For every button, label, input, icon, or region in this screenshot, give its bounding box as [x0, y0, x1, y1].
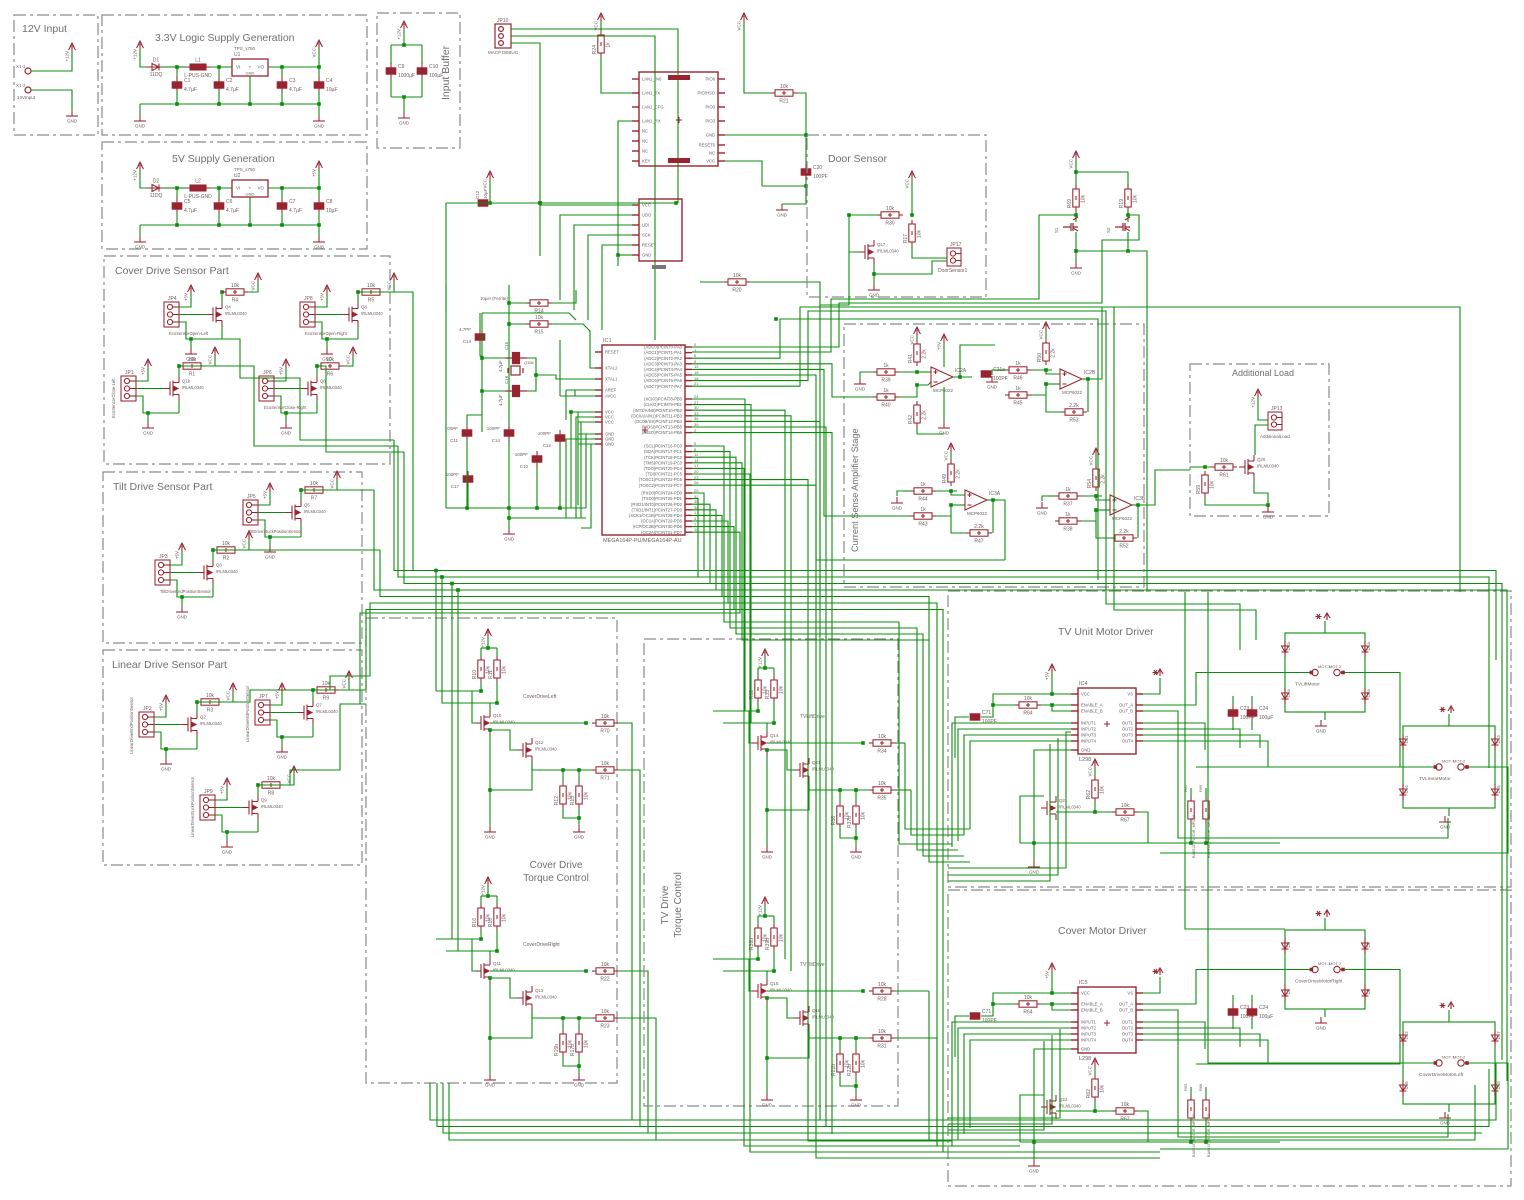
svg-text:+12V: +12V	[758, 657, 763, 668]
svg-text:D2: D2	[153, 179, 160, 185]
junction	[507, 322, 511, 326]
svg-text:R33: R33	[765, 690, 771, 699]
svg-text:GND: GND	[777, 213, 788, 218]
resistor R15b	[560, 1030, 566, 1056]
wire gnd stub	[1324, 712, 1326, 720]
LAN module center mark	[676, 117, 682, 123]
junction	[1204, 841, 1208, 845]
resistor R52	[1111, 535, 1137, 541]
wire	[215, 815, 258, 832]
svg-text:(OC0B/SS)PCINT12-PB4: (OC0B/SS)PCINT12-PB4	[635, 419, 683, 424]
wire	[177, 66, 185, 68]
svg-text:IRLML0340: IRLML0340	[770, 988, 792, 993]
ground	[1262, 506, 1274, 512]
svg-text:MCP6022: MCP6022	[1062, 390, 1083, 395]
junction	[1074, 213, 1078, 217]
wire	[749, 959, 758, 991]
power +12V pair	[1440, 706, 1455, 713]
inductor L2	[185, 185, 211, 191]
wire	[1267, 505, 1269, 508]
wire	[943, 414, 945, 422]
power VCC	[948, 443, 955, 452]
svg-text:C6: C6	[226, 199, 233, 205]
svg-text:R16: R16	[472, 918, 478, 927]
junction	[1032, 841, 1036, 845]
junction	[480, 356, 484, 360]
wire gate in	[436, 690, 481, 692]
junction	[507, 301, 511, 305]
wire	[268, 187, 319, 189]
wire	[1094, 802, 1096, 812]
wire	[601, 57, 632, 93]
junction	[488, 201, 492, 205]
svg-text:20: 20	[694, 469, 699, 474]
wire bottom rail	[140, 224, 319, 226]
junction	[486, 646, 490, 650]
wire pd5 bus	[366, 521, 728, 676]
svg-text:R7: R7	[311, 496, 318, 502]
svg-text:OUT3: OUT3	[1122, 1032, 1134, 1037]
svg-text:JP3: JP3	[159, 554, 168, 560]
junction	[949, 489, 953, 493]
svg-text:+5V: +5V	[312, 169, 317, 177]
wire +12V stub	[1448, 1010, 1450, 1022]
wire	[170, 552, 182, 565]
svg-text:(MOSI)PCINT13-PB5: (MOSI)PCINT13-PB5	[642, 425, 683, 430]
wire	[1254, 479, 1268, 505]
resistor R8	[258, 782, 284, 788]
svg-text:R62: R62	[1086, 1089, 1092, 1098]
wire	[270, 692, 282, 705]
svg-text:R20: R20	[732, 288, 741, 294]
resistor R21	[771, 90, 797, 96]
svg-text:Q7: Q7	[316, 703, 322, 708]
wire outA	[1143, 970, 1285, 1005]
wire outA	[1143, 673, 1285, 706]
svg-text:2.2k: 2.2k	[974, 524, 984, 530]
svg-text:VCC: VCC	[483, 178, 488, 188]
wire	[390, 78, 392, 97]
svg-text:(TOSC2)PCINT23-PC7: (TOSC2)PCINT23-PC7	[639, 483, 683, 488]
wire pd3 bus	[374, 490, 716, 590]
wire	[489, 735, 491, 749]
resistor R34	[869, 740, 895, 746]
power +5V	[279, 683, 286, 692]
svg-text:C5: C5	[184, 199, 191, 205]
wire	[766, 723, 768, 731]
wire	[1143, 678, 1160, 694]
wire	[258, 520, 301, 537]
wire vertical A	[445, 285, 447, 508]
svg-text:D7: D7	[1366, 941, 1371, 947]
wire	[268, 66, 319, 68]
svg-text:X1-2: X1-2	[16, 83, 26, 88]
connector JP17	[947, 248, 961, 266]
svg-text:GND: GND	[851, 1103, 862, 1108]
svg-text:IRLML0340: IRLML0340	[320, 385, 342, 390]
wire tv in bus 3	[948, 744, 1050, 881]
wire	[358, 292, 413, 571]
wire lan rx	[618, 121, 632, 266]
wire	[1041, 1003, 1071, 1005]
wire	[578, 770, 580, 782]
wire	[1075, 172, 1077, 188]
wire	[1205, 788, 1207, 797]
wire	[773, 950, 775, 971]
wire adc7 bus	[692, 307, 1256, 640]
junction	[861, 989, 865, 993]
svg-text:10k: 10k	[878, 982, 887, 988]
wire adc3 to IC2A	[692, 364, 873, 397]
wire	[300, 490, 302, 501]
power +12V	[1255, 389, 1262, 398]
svg-text:4.7µF: 4.7µF	[184, 87, 197, 93]
wire	[992, 370, 998, 375]
ground	[176, 606, 188, 612]
capacitor 100PF	[981, 371, 991, 377]
junction	[991, 498, 995, 502]
svg-text:GND: GND	[762, 1103, 773, 1108]
wire	[1205, 497, 1268, 505]
resistor R13	[576, 782, 582, 808]
svg-text:GND: GND	[939, 431, 950, 436]
svg-text:+5V: +5V	[263, 491, 268, 499]
svg-text:OUT_A: OUT_A	[1119, 703, 1133, 708]
svg-text:LAN1_CFG: LAN1_CFG	[642, 105, 664, 110]
svg-text:RESET: RESET	[605, 350, 619, 355]
wire	[766, 1058, 768, 1094]
svg-text:10k: 10k	[310, 481, 319, 487]
junction	[910, 213, 914, 217]
svg-text:D5: D5	[1286, 941, 1291, 947]
svg-text:3.3V Logic Supply Generation: 3.3V Logic Supply Generation	[155, 32, 295, 44]
wire	[317, 366, 404, 452]
wire	[1095, 457, 1097, 465]
svg-text:C17: C17	[451, 484, 460, 489]
svg-text:10k: 10k	[878, 781, 887, 787]
diode D8	[1362, 985, 1369, 1001]
svg-text:L1: L1	[195, 58, 201, 64]
svg-text:DoorSensor1: DoorSensor1	[938, 268, 968, 274]
svg-text:(RXD0)PCINT24-PD0: (RXD0)PCINT24-PD0	[641, 491, 682, 496]
svg-text:OUT4: OUT4	[1122, 1038, 1134, 1043]
wire avcc	[560, 395, 595, 397]
junction	[217, 102, 221, 106]
wire	[239, 540, 249, 550]
svg-text:TVLinearMotor: TVLinearMotor	[1419, 776, 1451, 782]
svg-text:5V Supply Generation: 5V Supply Generation	[172, 153, 275, 165]
svg-text:D12: D12	[1404, 1031, 1409, 1040]
wire	[1076, 172, 1128, 188]
svg-text:VCC: VCC	[242, 538, 247, 548]
resistor R24	[598, 31, 604, 57]
svg-text:CoverDriveLeft: CoverDriveLeft	[523, 694, 557, 700]
svg-text:(ADC4)PCINT4-PA4: (ADC4)PCINT4-PA4	[644, 367, 683, 372]
svg-text:EcoSensorClose-Right: EcoSensorClose-Right	[264, 405, 307, 410]
junction	[772, 721, 776, 725]
wire gnd pin	[578, 438, 595, 440]
wire	[281, 92, 283, 104]
MCU center mark	[642, 427, 648, 433]
wire	[1094, 1067, 1096, 1075]
motor pin dots	[1434, 765, 1438, 769]
diode D6	[1282, 985, 1289, 1001]
resistor R32	[755, 676, 761, 702]
wire	[490, 730, 517, 750]
wire	[1258, 398, 1268, 420]
ground	[850, 846, 862, 852]
connector JP10	[495, 24, 511, 48]
power +5V	[1049, 963, 1056, 972]
svg-text:(SDA)PCINT17-PC1: (SDA)PCINT17-PC1	[644, 449, 683, 454]
power +5V	[188, 285, 195, 294]
svg-text:MOT-2: MOT-2	[1453, 1055, 1466, 1060]
motor pin dots	[1434, 1061, 1438, 1065]
svg-text:OUT1: OUT1	[1122, 721, 1134, 726]
svg-text:INPUT4: INPUT4	[1081, 739, 1097, 744]
wire	[1190, 823, 1192, 843]
wire bus r4	[716, 590, 1507, 1081]
svg-text:Q20: Q20	[1257, 457, 1266, 462]
svg-text:VI: VI	[236, 65, 240, 70]
connector JP4	[164, 302, 179, 327]
wire isp udi	[574, 225, 632, 310]
junction	[146, 411, 150, 415]
diode D3a	[1362, 688, 1369, 704]
svg-text:10k: 10k	[322, 681, 331, 687]
svg-text:R64: R64	[1023, 711, 1032, 717]
svg-text:C71: C71	[982, 1009, 991, 1015]
resistor R40	[873, 394, 899, 400]
svg-text:10k: 10k	[535, 315, 544, 321]
svg-text:R53: R53	[1069, 418, 1078, 424]
svg-text:OUT2: OUT2	[1122, 727, 1134, 732]
svg-text:D11: D11	[1404, 735, 1409, 743]
diode D11	[1400, 734, 1407, 750]
junction	[616, 253, 620, 257]
transistor Q8	[343, 303, 358, 327]
wire	[1075, 232, 1077, 251]
wire	[154, 704, 166, 717]
wire	[481, 647, 497, 649]
wire	[480, 930, 482, 939]
svg-text:VCC: VCC	[1039, 329, 1044, 339]
wire	[840, 1076, 856, 1086]
wire	[147, 413, 149, 422]
svg-text:(RXD1/INT0)PCINT26-PD2: (RXD1/INT0)PCINT26-PD2	[631, 502, 683, 507]
svg-text:VCC: VCC	[287, 773, 292, 783]
wire	[285, 413, 287, 422]
svg-text:(TXD1/INT1)PCINT27-PD3: (TXD1/INT1)PCINT27-PD3	[632, 507, 683, 512]
svg-text:10k: 10k	[733, 273, 742, 279]
wire	[489, 790, 491, 826]
wire	[840, 828, 856, 838]
wire	[559, 446, 561, 508]
capacitor C24	[1247, 1004, 1257, 1020]
ground	[142, 422, 154, 428]
LAN module bottom bar	[668, 158, 690, 163]
svg-text:+5V: +5V	[141, 367, 146, 375]
svg-text:Q13: Q13	[535, 988, 544, 993]
wire	[318, 225, 320, 236]
resistor R19	[1125, 185, 1131, 211]
IC IC5	[1071, 987, 1143, 1053]
wire aref	[566, 389, 595, 391]
svg-text:C10: C10	[429, 64, 438, 70]
power +5V	[941, 334, 948, 343]
wire	[212, 550, 214, 561]
svg-text:VCC: VCC	[605, 420, 614, 425]
svg-text:VCC: VCC	[1088, 766, 1093, 776]
wire	[178, 401, 180, 414]
svg-text:1k: 1k	[1015, 386, 1021, 392]
svg-text:Cover Drive Sensor Part: Cover Drive Sensor Part	[115, 265, 229, 277]
svg-text:IC1: IC1	[603, 338, 612, 344]
capacitor C24	[1247, 705, 1257, 721]
ISP bottom bar	[652, 265, 666, 269]
wire	[274, 388, 302, 390]
resistor R45	[1005, 392, 1031, 398]
power +5V	[145, 359, 152, 368]
wire	[466, 441, 468, 508]
junction	[175, 223, 179, 227]
power VCC	[246, 531, 253, 540]
wire IC2B out bus	[1102, 307, 1460, 592]
resistor R42	[914, 401, 920, 427]
wire pd7 bus	[360, 532, 740, 704]
wire	[993, 993, 1052, 1004]
wire	[176, 188, 178, 199]
junction	[872, 272, 876, 276]
svg-text:Q14: Q14	[770, 733, 779, 738]
wire	[536, 467, 538, 508]
wire out2	[1143, 729, 1240, 748]
svg-text:C8: C8	[326, 199, 333, 205]
junction	[1266, 503, 1270, 507]
wire bridge1 ret	[1196, 970, 1400, 1065]
wire	[318, 104, 320, 115]
wire	[269, 537, 271, 546]
power VCC	[212, 347, 219, 356]
wire	[723, 970, 774, 972]
junction	[804, 133, 808, 137]
wire	[489, 983, 491, 997]
svg-text:D14: D14	[1404, 785, 1409, 794]
svg-text:10k: 10k	[601, 714, 610, 720]
svg-text:BA6919_PU/DIR_MPC10: BA6919_PU/DIR_MPC10	[1192, 815, 1196, 858]
wire	[312, 690, 314, 701]
wire vcc1	[571, 412, 595, 508]
power VCC	[334, 471, 341, 480]
transistor Q14	[752, 731, 767, 755]
svg-text:JP17: JP17	[950, 242, 962, 248]
junction	[317, 223, 321, 227]
svg-text:R21: R21	[779, 99, 788, 105]
power +12V pair	[1440, 1002, 1455, 1009]
wire	[563, 808, 579, 818]
svg-text:C3: C3	[289, 78, 296, 84]
wire	[226, 832, 228, 841]
wire out1	[490, 970, 586, 972]
svg-text:GND: GND	[399, 121, 410, 126]
wire	[951, 504, 965, 506]
svg-text:IRLML0340: IRLML0340	[200, 721, 222, 726]
power VCC	[346, 671, 353, 680]
svg-text:PIO0: PIO0	[705, 105, 715, 110]
wire	[917, 382, 931, 385]
diode D4a	[1282, 688, 1289, 704]
resistor R53	[1061, 409, 1087, 415]
wire cover in bus 3	[948, 1041, 1044, 1130]
junction	[1126, 213, 1130, 217]
svg-text:GND: GND	[135, 124, 146, 129]
wire	[1127, 211, 1129, 222]
wire	[1096, 496, 1110, 500]
IC U2 regulator	[232, 180, 268, 197]
diode D1	[146, 64, 166, 71]
svg-text:VCC: VCC	[251, 280, 256, 290]
svg-text:L298: L298	[1079, 757, 1091, 763]
svg-text:PIO6: PIO6	[705, 77, 715, 82]
wire	[1045, 331, 1047, 339]
wire	[1056, 811, 1112, 813]
wire	[496, 648, 498, 656]
wire	[218, 92, 220, 104]
wire	[955, 717, 969, 758]
capacitor C15	[505, 353, 527, 364]
svg-text:VCC: VCC	[910, 334, 915, 344]
power +12V	[401, 21, 408, 30]
wire	[357, 327, 359, 340]
capacitor C4	[314, 77, 324, 93]
svg-text:R71: R71	[600, 776, 609, 782]
svg-text:R2: R2	[223, 556, 230, 562]
power VCC	[1043, 322, 1050, 331]
wire	[1190, 466, 1211, 468]
svg-text:GND: GND	[314, 245, 325, 250]
junction	[189, 337, 193, 341]
wire outB	[1143, 711, 1448, 838]
svg-text:ENABLE_A: ENABLE_A	[1081, 703, 1103, 708]
svg-text:26: 26	[694, 480, 699, 485]
wire	[757, 916, 759, 924]
wire tv in bus 2	[948, 738, 1058, 875]
wire	[1251, 721, 1253, 730]
wire tv out4 link	[936, 1038, 938, 1146]
wire bus r1	[704, 571, 1496, 661]
wire pc1 bus	[692, 452, 958, 850]
wire gnd stub	[1448, 1104, 1450, 1112]
wire	[482, 390, 505, 392]
wire gnd stub	[1448, 808, 1450, 816]
wire pc2 bus	[692, 457, 964, 856]
wire	[281, 67, 283, 78]
svg-text:R23: R23	[600, 1024, 609, 1030]
svg-text:R39: R39	[881, 378, 890, 384]
svg-text:IRLML0340: IRLML0340	[877, 249, 899, 254]
junction	[488, 788, 492, 792]
wire	[757, 950, 759, 959]
resistor R31	[869, 1035, 895, 1041]
wire	[758, 667, 774, 669]
svg-text:VS: VS	[1127, 991, 1133, 996]
wire	[849, 215, 859, 252]
wire avcc	[575, 395, 595, 397]
svg-text:36: 36	[694, 416, 699, 421]
wire	[1094, 768, 1096, 776]
wire	[574, 390, 576, 396]
junction	[958, 375, 962, 379]
